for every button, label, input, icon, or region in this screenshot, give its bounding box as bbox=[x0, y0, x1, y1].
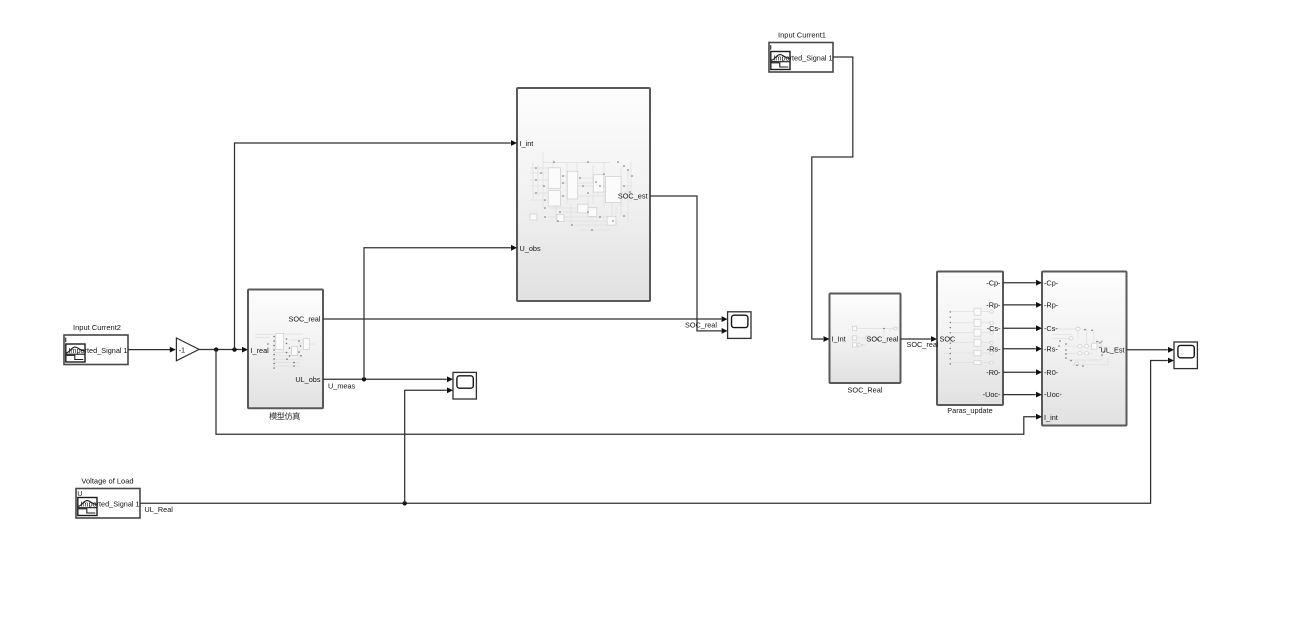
svg-text:SOC_real: SOC_real bbox=[866, 335, 898, 344]
wire Cs Paras_update to UL_Est bbox=[1003, 325, 1042, 331]
wire label SOC_real bbox=[907, 340, 939, 349]
svg-text:I_int: I_int bbox=[1044, 413, 1058, 422]
label Paras_update bbox=[947, 406, 992, 415]
wire Cp Paras_update to UL_Est bbox=[1003, 280, 1042, 286]
wire Input Current1 to I_Int of SOC_Real bbox=[812, 57, 853, 342]
subsystem Paras_update bbox=[937, 272, 1003, 406]
svg-text:UL_obs: UL_obs bbox=[295, 375, 321, 384]
svg-text:-Cp-: -Cp- bbox=[986, 278, 1001, 287]
label Voltage of Load bbox=[81, 477, 133, 486]
wire Uoc Paras_update to UL_Est bbox=[1003, 392, 1042, 398]
svg-text:Imported_Signal 1: Imported_Signal 1 bbox=[80, 499, 139, 508]
label 模型仿真 (CJK glyph paths) bbox=[269, 412, 300, 420]
wire R0 Paras_update to UL_Est bbox=[1003, 369, 1042, 375]
wire junction to I_int of UL_Est (bottom run) bbox=[216, 350, 1042, 435]
svg-text:I_Int: I_Int bbox=[832, 335, 846, 344]
scope Scope B (voltage compare) bbox=[453, 372, 476, 399]
svg-text:I_int: I_int bbox=[520, 139, 534, 148]
svg-text:U_obs: U_obs bbox=[520, 244, 541, 253]
wire Rs Paras_update to UL_Est bbox=[1003, 346, 1042, 352]
subsystem 模型仿真 (model simulation) bbox=[248, 290, 323, 409]
wire gain to I_real with junctions bbox=[199, 347, 248, 353]
source block Input Current1 (Imported_Signal 1) bbox=[769, 43, 833, 73]
label Input Current2 bbox=[73, 323, 121, 332]
label Input Current1 bbox=[778, 31, 826, 40]
svg-text:-R0-: -R0- bbox=[1044, 368, 1059, 377]
svg-text:U_meas: U_meas bbox=[328, 381, 356, 390]
scope Scope A (SOC compare) bbox=[728, 312, 751, 339]
svg-text:-Cp-: -Cp- bbox=[1044, 278, 1059, 287]
wire SOC_real from 模型仿真 to Scope A top bbox=[323, 316, 728, 322]
wire junction up to I_int of estimator bbox=[235, 140, 518, 350]
scope Scope C (UL_Est vs UL_Real) bbox=[1174, 342, 1197, 369]
svg-text:SOC_Real: SOC_Real bbox=[848, 385, 883, 394]
svg-text:UL_Est: UL_Est bbox=[1101, 345, 1125, 354]
svg-text:-Rs-: -Rs- bbox=[1044, 344, 1058, 353]
wire branch up to U_obs bbox=[364, 245, 517, 379]
wire Input Current2 to gain bbox=[128, 347, 176, 353]
svg-text:Imported_Signal 1: Imported_Signal 1 bbox=[68, 346, 127, 355]
svg-text:SOC_real: SOC_real bbox=[685, 321, 717, 330]
gain block -1 bbox=[176, 338, 199, 361]
wire SOC_Real to SOC of Paras_update bbox=[901, 336, 938, 342]
wire label UL_Real bbox=[145, 505, 174, 514]
source block Input Current2 (Imported_Signal 1) bbox=[64, 335, 128, 365]
source block Voltage of Load (Imported_Signal 1) bbox=[76, 489, 140, 519]
svg-text:Input Current1: Input Current1 bbox=[778, 31, 826, 40]
svg-text:UL_Real: UL_Real bbox=[145, 505, 174, 514]
svg-text:-R0-: -R0- bbox=[986, 368, 1001, 377]
svg-text:-1: -1 bbox=[179, 345, 186, 354]
subsystem SOC estimator (I_int,U_obs -> SOC_est) bbox=[517, 88, 650, 301]
subsystem UL_Est (battery model) bbox=[1042, 272, 1127, 426]
svg-text:SOC_real: SOC_real bbox=[288, 315, 320, 324]
svg-text:-Rp-: -Rp- bbox=[1044, 301, 1059, 310]
svg-text:-Uoc-: -Uoc- bbox=[983, 390, 1001, 399]
svg-text:-Cs-: -Cs- bbox=[1044, 324, 1058, 333]
svg-text:SOC_real: SOC_real bbox=[907, 340, 939, 349]
label SOC_Real bbox=[848, 385, 883, 394]
wire Rp Paras_update to UL_Est bbox=[1003, 302, 1042, 308]
svg-text:SOC_est: SOC_est bbox=[618, 192, 648, 201]
svg-text:-Rp-: -Rp- bbox=[986, 301, 1001, 310]
wire UL_Est to Scope C top bbox=[1127, 347, 1175, 353]
svg-text:SOC: SOC bbox=[940, 335, 956, 344]
svg-text:I_real: I_real bbox=[251, 346, 270, 355]
wire label SOC_real bbox=[685, 321, 717, 330]
svg-text:-Cs-: -Cs- bbox=[987, 324, 1001, 333]
wire SOC_est to Scope A bottom bbox=[650, 196, 728, 334]
svg-text:Voltage of Load: Voltage of Load bbox=[81, 477, 133, 486]
svg-text:Paras_update: Paras_update bbox=[947, 406, 992, 415]
svg-text:Input Current2: Input Current2 bbox=[73, 323, 121, 332]
wire Voltage of Load UL_Real run to Scope C bottom bbox=[140, 358, 1174, 506]
svg-text:Imported_Signal 1: Imported_Signal 1 bbox=[773, 53, 832, 62]
wire label U_meas bbox=[328, 381, 356, 390]
svg-text:-Uoc-: -Uoc- bbox=[1044, 390, 1062, 399]
svg-text:-Rs-: -Rs- bbox=[987, 344, 1001, 353]
wire UL_obs to Scope B top with junction bbox=[323, 376, 453, 382]
svg-text:U: U bbox=[77, 489, 82, 498]
subsystem SOC_Real bbox=[830, 294, 901, 384]
wire branch up to Scope B bottom bbox=[405, 387, 453, 503]
